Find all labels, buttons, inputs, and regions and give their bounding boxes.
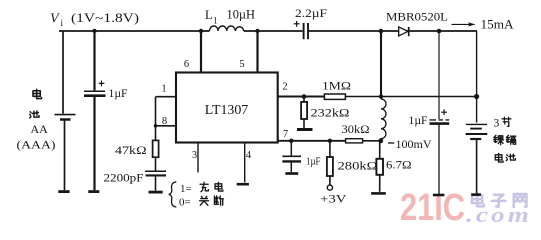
svg-text:30kΩ: 30kΩ xyxy=(342,124,370,136)
svg-text:6: 6 xyxy=(184,59,189,70)
wire pin 2 xyxy=(278,95,325,97)
ground bar battery xyxy=(58,190,69,193)
svg-text:2: 2 xyxy=(282,82,287,93)
svg-text:100mV: 100mV xyxy=(396,139,433,151)
svg-text:10µH: 10µH xyxy=(227,8,256,22)
ground bar 2200pF xyxy=(149,191,163,194)
label 3节 xyxy=(494,117,511,129)
node pin5 junction xyxy=(255,29,259,33)
node coil top junction xyxy=(379,94,383,98)
ground bar 1uF pin7 xyxy=(285,172,298,175)
svg-text:AA: AA xyxy=(31,122,49,136)
wire 2200pF to ground xyxy=(155,175,157,190)
ground bar pin4 xyxy=(237,183,249,186)
battery B2 NiCd stack xyxy=(466,124,488,139)
node pin6 junction xyxy=(199,29,203,33)
svg-text:4: 4 xyxy=(246,150,252,161)
wire 280k to terminal xyxy=(329,141,331,185)
resistor R3 232k xyxy=(301,102,307,119)
svg-text:2.2µF: 2.2µF xyxy=(295,6,327,20)
wire coil top drop xyxy=(380,31,382,99)
label 电池 AA (AAA) xyxy=(30,89,42,118)
wire pin 4 xyxy=(244,143,246,183)
svg-text:3: 3 xyxy=(192,150,197,161)
wire 6.7 top xyxy=(379,141,381,159)
wire input cap drop xyxy=(93,31,95,90)
ground bar output cap xyxy=(433,194,445,197)
svg-text:3: 3 xyxy=(494,118,500,130)
ground bar 6.7 xyxy=(371,192,386,195)
wire pin 5 xyxy=(256,31,258,73)
ground bar input cap xyxy=(88,190,99,193)
wire top rail right (cap to output corner) xyxy=(309,30,477,32)
node input cap junction xyxy=(92,29,96,33)
svg-text:5: 5 xyxy=(239,59,244,70)
svg-text:L: L xyxy=(205,8,213,22)
node output node junction xyxy=(474,94,479,99)
svg-text:LT1307: LT1307 xyxy=(205,103,249,118)
wire 30k to coil bottom xyxy=(363,140,381,142)
wire pin 3 xyxy=(197,143,199,173)
terminal +3V circle xyxy=(327,185,332,190)
brace shutdown annotation xyxy=(169,182,177,207)
svg-text:8: 8 xyxy=(162,116,167,127)
svg-text:(1V~1.8V): (1V~1.8V) xyxy=(71,11,139,25)
svg-text:+3V: +3V xyxy=(320,192,347,206)
wire pin 8 xyxy=(156,125,177,127)
node coil bottom junction xyxy=(378,138,383,143)
wire 1M to output node xyxy=(345,96,476,98)
node diode anode junction xyxy=(379,29,384,34)
battery B1 AA cell xyxy=(55,115,76,120)
capacitor C4 1uF pin7 xyxy=(282,141,301,172)
wire 232k drop xyxy=(303,97,305,102)
watermark .com xyxy=(466,202,532,227)
svg-text:2200pF: 2200pF xyxy=(104,173,144,185)
wire battery to ground xyxy=(64,120,66,191)
svg-text:47kΩ: 47kΩ xyxy=(115,145,147,157)
label 镍镉 xyxy=(494,135,516,144)
label 1=charge xyxy=(180,182,223,195)
label Vi xyxy=(50,11,139,28)
label 电池 nicad xyxy=(495,153,515,162)
svg-text:1: 1 xyxy=(161,84,166,95)
svg-text:V: V xyxy=(50,12,60,27)
wire output right corner drop xyxy=(476,31,478,123)
resistor R5 280k xyxy=(327,157,333,176)
wire left battery drop xyxy=(62,31,64,114)
svg-text:7: 7 xyxy=(283,129,288,140)
node 280k junction xyxy=(328,139,332,143)
wire pin 6 xyxy=(200,31,202,73)
wire output cap vertical xyxy=(438,31,440,119)
svg-text:21IC: 21IC xyxy=(400,187,465,229)
wire output cap to ground xyxy=(438,124,440,194)
wire pin1-pin8-47k vertical xyxy=(155,97,157,141)
svg-text:1: 1 xyxy=(213,16,218,26)
diode D1 MBR0520L xyxy=(399,27,409,36)
wire input cap to ground xyxy=(93,96,95,191)
svg-text:280kΩ: 280kΩ xyxy=(338,161,378,173)
svg-text:(AAA): (AAA) xyxy=(17,138,56,152)
wire top rail mid (L1 to 2.2uF) xyxy=(244,30,303,32)
capacitor C2 2.2uF xyxy=(294,21,308,39)
svg-text:232kΩ: 232kΩ xyxy=(311,108,350,120)
wire 47k to 2200pF xyxy=(155,157,157,171)
svg-text:1=: 1= xyxy=(180,183,192,195)
wire NiCd to ground xyxy=(476,139,478,193)
node 1uF pin7 junction xyxy=(289,139,293,143)
inductor L2 sense coil xyxy=(381,99,386,141)
ground bar 232k xyxy=(297,128,313,131)
watermark 21IC xyxy=(400,187,465,229)
svg-text:0=: 0= xyxy=(179,197,191,209)
svg-text:1µF: 1µF xyxy=(306,157,321,168)
ground bar NiCd xyxy=(471,193,481,196)
node output cap top junction xyxy=(437,29,442,34)
svg-text:6.7Ω: 6.7Ω xyxy=(386,160,412,172)
wire 6.7 to ground xyxy=(379,175,381,192)
capacitor C5 1uF output xyxy=(430,109,450,123)
svg-text:1MΩ: 1MΩ xyxy=(322,79,351,93)
wire pin 7 xyxy=(278,140,346,142)
svg-text:1µF: 1µF xyxy=(109,88,128,100)
svg-text:1µF: 1µF xyxy=(409,115,428,127)
node pin8 junction xyxy=(154,124,158,128)
capacitor C3 2200pF xyxy=(145,171,166,175)
resistor R1 47k xyxy=(153,140,159,157)
resistor R6 6.7ohm xyxy=(376,159,383,175)
wire top rail left (Vi rail) xyxy=(59,30,210,32)
svg-text:15mA: 15mA xyxy=(481,18,514,32)
wire 232k to ground xyxy=(303,119,305,128)
inductor L1 coil xyxy=(210,26,244,31)
capacitor C1 1uF input xyxy=(84,81,106,96)
label L1 xyxy=(205,8,255,26)
watermark 电子网 xyxy=(472,193,527,207)
wire pin 1 xyxy=(156,96,177,98)
svg-text:MBR0520L: MBR0520L xyxy=(386,12,448,24)
arrow 15mA xyxy=(452,22,476,26)
label 0=shutdown xyxy=(179,196,224,209)
node 232k junction xyxy=(302,94,307,99)
label -100mV xyxy=(388,139,432,151)
svg-text:.com: .com xyxy=(466,202,532,227)
resistor R2 1M xyxy=(324,94,345,99)
resistor R4 30k xyxy=(346,139,363,143)
IC U1 LT1307 body xyxy=(176,73,278,143)
